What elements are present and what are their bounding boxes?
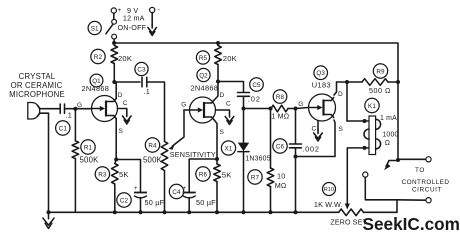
svg-text:.1: .1	[144, 87, 151, 96]
svg-text:MICROPHONE: MICROPHONE	[9, 90, 65, 99]
svg-text:12 mA: 12 mA	[123, 13, 145, 22]
svg-text:G: G	[298, 101, 303, 108]
svg-text:X1: X1	[225, 145, 233, 152]
svg-text:CONTROLLED: CONTROLLED	[402, 179, 450, 186]
svg-text:R10: R10	[324, 187, 334, 193]
svg-text:+: +	[118, 7, 122, 14]
svg-text:G: G	[181, 102, 186, 109]
svg-text:S: S	[220, 129, 225, 136]
battery - terminal	[150, 7, 155, 12]
Q1 case lead + ground	[118, 109, 127, 113]
svg-text:R3: R3	[98, 171, 107, 178]
svg-text:500 Ω: 500 Ω	[369, 86, 391, 95]
Q1 source wire	[115, 119, 117, 160]
svg-text:C: C	[312, 126, 317, 133]
svg-text:C3: C3	[137, 66, 146, 73]
node wire C5 to R8	[244, 108, 271, 110]
svg-text:R7: R7	[251, 174, 260, 181]
svg-text:.02: .02	[248, 95, 261, 104]
capacitor C6 .002	[295, 109, 297, 144]
svg-text:R4: R4	[148, 142, 157, 149]
svg-text:D: D	[338, 91, 343, 98]
svg-text:2N4868: 2N4868	[82, 84, 110, 93]
svg-text:MΩ: MΩ	[275, 181, 287, 190]
output terminal top	[398, 158, 426, 160]
wire C1 to Q1 gate	[65, 108, 92, 110]
resistor R1 500K	[74, 109, 76, 141]
resistor R2 20K	[111, 46, 118, 64]
Q3 source wire	[296, 120, 336, 157]
svg-text:5K: 5K	[119, 170, 129, 179]
microphone symbol	[28, 103, 40, 120]
svg-text:20K: 20K	[118, 54, 132, 63]
chassis ground at mic	[48, 214, 50, 219]
svg-text:S1: S1	[91, 25, 99, 32]
svg-text:C4: C4	[172, 189, 181, 196]
output terminal bottom	[397, 199, 426, 201]
svg-text:Q2: Q2	[199, 72, 208, 79]
svg-text:C: C	[123, 100, 128, 107]
svg-text:R2: R2	[94, 54, 103, 61]
transistor Q3 U183	[309, 94, 336, 121]
svg-text:C5: C5	[252, 82, 261, 89]
mic top lead wire	[40, 108, 60, 110]
svg-text:CRYSTAL: CRYSTAL	[19, 72, 56, 81]
diode X1 1N3605	[243, 109, 245, 143]
Q1 drain wire	[115, 82, 117, 99]
svg-text:CIRCUIT: CIRCUIT	[412, 186, 442, 193]
svg-text:C2: C2	[120, 197, 129, 204]
svg-text:20K: 20K	[223, 54, 237, 63]
svg-text:S: S	[119, 128, 124, 135]
svg-text:10: 10	[277, 172, 285, 181]
capacitor C2 50uF	[116, 160, 140, 193]
Q3 drain wire	[334, 82, 337, 95]
mic bottom lead to ground rail	[40, 113, 49, 212]
svg-text:+: +	[134, 186, 138, 192]
Q2 drain wire	[214, 82, 218, 101]
svg-text:R9: R9	[376, 68, 385, 75]
Q2 case lead + ground	[216, 110, 230, 113]
relay coil bottom lead to R10 wiper	[347, 148, 369, 205]
resistor R8 1 MΩ	[271, 105, 288, 112]
svg-text:1 MΩ: 1 MΩ	[271, 112, 290, 121]
svg-text:1 mA: 1 mA	[380, 115, 397, 122]
resistor R6 5K	[214, 164, 221, 182]
svg-text:D: D	[220, 92, 225, 99]
svg-text:G: G	[77, 102, 82, 109]
svg-text:ON-OFF: ON-OFF	[118, 23, 147, 32]
svg-text:.1: .1	[66, 111, 73, 120]
svg-text:500K: 500K	[143, 156, 163, 165]
svg-text:R1: R1	[84, 144, 93, 151]
switch S1	[112, 19, 117, 24]
resistor R5 20K	[215, 46, 222, 65]
svg-text:K1: K1	[368, 103, 376, 110]
bottom common rail	[49, 211, 339, 213]
svg-text:R8: R8	[276, 94, 285, 101]
top rail / +9V supply	[114, 43, 398, 82]
svg-text:Ω: Ω	[385, 140, 390, 147]
battery + terminal	[113, 13, 115, 19]
svg-text:1000: 1000	[382, 132, 398, 139]
svg-text:TO: TO	[415, 167, 425, 174]
svg-text:R5: R5	[199, 55, 208, 62]
transistor Q1 2N4868	[92, 96, 118, 122]
svg-text:R6: R6	[199, 171, 208, 178]
svg-text:1K W.W.: 1K W.W.	[314, 200, 343, 209]
svg-text:SeekIC.com: SeekIC.com	[363, 214, 460, 234]
svg-text:OR CERAMIC: OR CERAMIC	[11, 81, 63, 90]
Q2 source wire	[214, 120, 217, 159]
wire R8 to Q3 gate	[296, 108, 309, 109]
capacitor C5 .02	[218, 82, 244, 93]
svg-text:SENSITIVITY: SENSITIVITY	[170, 150, 216, 159]
Q3 case lead + ground	[317, 121, 319, 130]
svg-text:Q3: Q3	[316, 70, 325, 77]
svg-text:C1: C1	[59, 125, 68, 132]
svg-text:D: D	[118, 92, 123, 99]
svg-text:50 µF: 50 µF	[196, 198, 216, 207]
svg-text:U183: U183	[312, 81, 331, 90]
svg-text:C: C	[226, 101, 231, 108]
svg-text:5K: 5K	[222, 171, 232, 180]
relay armature from +V	[397, 82, 399, 159]
capacitor C3 .1	[114, 81, 140, 83]
resistor R9 500Ω	[337, 81, 363, 83]
svg-text:500K: 500K	[80, 155, 100, 164]
transistor Q2 2N4868	[190, 97, 216, 123]
capacitor C4 50uF	[189, 159, 217, 192]
R4 wiper to Q2 gate	[173, 110, 185, 146]
svg-text:50 µF: 50 µF	[145, 198, 165, 207]
relay K1 coil	[365, 98, 379, 112]
potentiometer R4 500K SENSITIVITY	[161, 142, 168, 171]
capacitor C1 .1	[60, 104, 64, 113]
resistor R3 5K	[112, 164, 119, 185]
svg-text:.002: .002	[302, 144, 319, 153]
svg-text:C6: C6	[276, 143, 285, 150]
resistor R7 10 MΩ	[270, 109, 272, 169]
potentiometer R10 1K W.W. ZERO SET	[339, 209, 364, 216]
svg-text:1N3605: 1N3605	[245, 156, 270, 163]
svg-text:2N4868: 2N4868	[191, 83, 219, 92]
relay NO contact	[363, 172, 368, 177]
svg-text:S: S	[339, 126, 344, 133]
